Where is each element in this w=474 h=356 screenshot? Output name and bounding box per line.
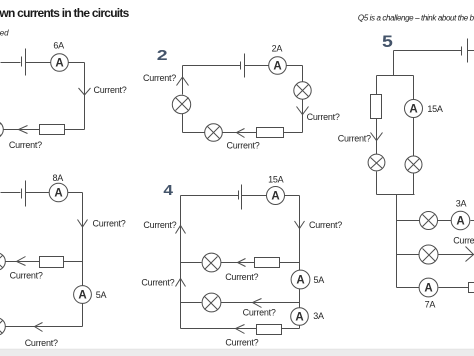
svg-text:A: A <box>78 289 86 301</box>
svg-text:Current?: Current? <box>307 112 340 122</box>
svg-text:3A: 3A <box>456 199 467 209</box>
svg-text:Q5 is a challenge – think abou: Q5 is a challenge – think about the bran… <box>358 13 474 22</box>
svg-text:Current?: Current? <box>309 220 342 230</box>
svg-text:Current?: Current? <box>25 338 58 348</box>
svg-text:A: A <box>271 190 279 202</box>
svg-text:A: A <box>295 311 303 323</box>
svg-text:Current?: Current? <box>94 85 127 95</box>
svg-text:15A: 15A <box>427 104 443 114</box>
svg-text:3A: 3A <box>313 311 324 321</box>
svg-text:Current?: Current? <box>143 220 176 230</box>
svg-text:A: A <box>54 188 62 200</box>
svg-text:15A: 15A <box>268 174 284 184</box>
svg-text:2A: 2A <box>272 44 283 54</box>
svg-text:Current?: Current? <box>9 140 42 150</box>
svg-text:A: A <box>424 282 432 294</box>
svg-text:Current?: Current? <box>243 307 276 317</box>
svg-text:A: A <box>55 57 63 69</box>
svg-text:2: 2 <box>157 46 168 63</box>
svg-text:7A: 7A <box>425 299 436 309</box>
svg-text:5A: 5A <box>96 290 107 300</box>
svg-text:A: A <box>456 215 464 227</box>
svg-text:6A: 6A <box>53 40 64 50</box>
svg-text:5A: 5A <box>314 275 325 285</box>
svg-text:Current?: Current? <box>338 133 371 143</box>
svg-text:A: A <box>409 103 417 115</box>
svg-text:Current?: Current? <box>225 272 258 282</box>
svg-text:Current?: Current? <box>143 73 176 83</box>
svg-text:A: A <box>296 274 304 286</box>
svg-text:Current?: Current? <box>227 140 260 150</box>
svg-text:Current?: Current? <box>10 271 43 281</box>
svg-text:A: A <box>273 60 281 72</box>
svg-text:Current?: Current? <box>141 277 174 287</box>
svg-text:Work out the unknown currents: Work out the unknown currents in the cir… <box>0 6 130 20</box>
svg-text:completed: completed <box>0 29 9 38</box>
svg-text:Current?: Current? <box>453 236 474 246</box>
svg-text:Current?: Current? <box>93 218 126 228</box>
svg-text:Current?: Current? <box>225 337 258 347</box>
svg-text:8A: 8A <box>52 173 63 183</box>
svg-text:4: 4 <box>163 182 173 199</box>
svg-text:5: 5 <box>382 32 393 50</box>
